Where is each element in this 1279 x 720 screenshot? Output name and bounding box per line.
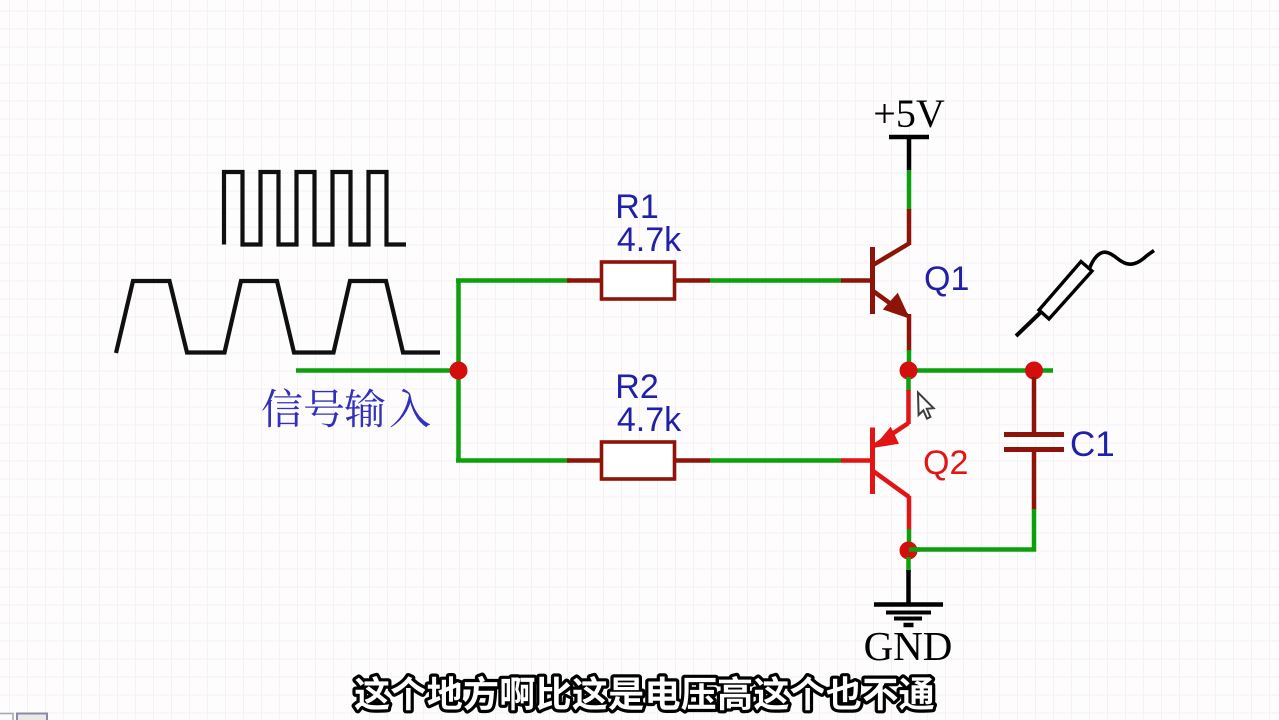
svg-text:4.7k: 4.7k bbox=[617, 221, 682, 259]
wire bottom horizontal from Q2 bbox=[909, 547, 920, 552]
wire R2 right bbox=[710, 458, 842, 463]
waveform: trapezoid wave input symbol bbox=[116, 281, 440, 353]
wire ground black bbox=[906, 570, 911, 604]
ground symbol bbox=[874, 605, 943, 626]
capacitor C1 bbox=[1004, 377, 1064, 510]
label net 信号输入 (signal input) bbox=[262, 388, 430, 427]
wire input horizontal bbox=[296, 368, 455, 373]
taskbar tab 2 bbox=[17, 714, 47, 720]
wire input vertical bbox=[456, 279, 461, 461]
node output junction bbox=[900, 362, 918, 380]
wire output horizontal bbox=[909, 368, 1053, 373]
transistor Q1 (NPN) bbox=[841, 209, 909, 351]
wire +5V green bbox=[907, 170, 912, 210]
wire R2 left bbox=[456, 458, 570, 463]
node ground junction bbox=[900, 542, 918, 560]
wire Q2 emitter stub green bbox=[906, 377, 911, 391]
wire Q1 emitter stub bbox=[907, 350, 912, 364]
node input junction bbox=[450, 362, 468, 380]
wire Q2 collector stub bbox=[907, 529, 912, 543]
mouse cursor bbox=[918, 393, 934, 419]
resistor R1 bbox=[567, 262, 710, 299]
transistor Q2 (PNP) bbox=[841, 390, 909, 530]
oscilloscope probe icon bbox=[1016, 251, 1154, 337]
wire +5V black stub bbox=[907, 137, 912, 170]
waveform: square wave input symbol bbox=[224, 172, 406, 245]
wire C1 bottom bbox=[916, 509, 1034, 550]
svg-text:Q2: Q2 bbox=[923, 444, 968, 482]
node C1 top junction bbox=[1025, 362, 1043, 380]
power +5V bar symbol bbox=[889, 135, 929, 140]
svg-text:GND: GND bbox=[864, 623, 953, 669]
resistor R2 bbox=[567, 442, 710, 479]
svg-text:4.7k: 4.7k bbox=[617, 401, 682, 439]
wire R1 left bbox=[456, 278, 570, 283]
svg-text:C1: C1 bbox=[1070, 425, 1115, 464]
wire ground stub green bbox=[906, 557, 911, 572]
svg-text:+5V: +5V bbox=[873, 91, 945, 136]
svg-text:Q1: Q1 bbox=[924, 260, 969, 298]
wire R1 right bbox=[710, 278, 842, 283]
subtitle text (Chinese caption) bbox=[355, 676, 934, 711]
taskbar tab 1 bbox=[0, 714, 13, 720]
